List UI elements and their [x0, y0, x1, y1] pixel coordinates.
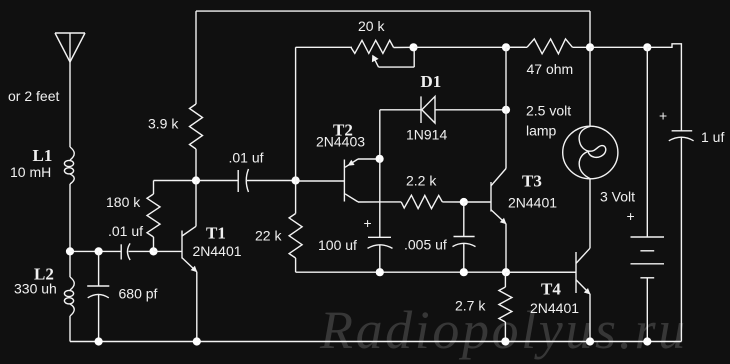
node bottom battery: [643, 337, 651, 345]
label or 2 feet: [8, 88, 59, 104]
wire T2 emitter to 100uf: [379, 159, 381, 238]
svg-text:47 ohm: 47 ohm: [527, 61, 574, 77]
svg-text:100 uf: 100 uf: [318, 237, 357, 253]
svg-text:3 Volt: 3 Volt: [600, 189, 635, 205]
node T2 emitter junction: [376, 155, 384, 163]
wire L2 to bottom rail: [69, 316, 71, 342]
node T3 base junction: [460, 198, 468, 206]
node T1 collector junction: [192, 176, 200, 184]
transistor T1 2N4401: [154, 181, 198, 342]
label 180 k: [106, 194, 141, 210]
transistor T2 2N4403: [296, 159, 380, 202]
battery 3 Volt: [631, 47, 665, 341]
label T3 2N4401: [508, 195, 557, 211]
wire 20k left leg: [296, 47, 352, 180]
svg-text:2N4401: 2N4401: [193, 243, 242, 259]
wire L1 to L2 node: [69, 184, 71, 277]
label .01 uf left: [108, 223, 143, 239]
label 2.7 k: [455, 298, 486, 314]
svg-text:+: +: [364, 215, 372, 231]
svg-text:3.9 k: 3.9 k: [148, 116, 179, 132]
inductor L1: [64, 147, 74, 184]
capacitor .01uf top: [196, 169, 296, 192]
label 22 k: [255, 228, 282, 244]
wire D1 to T3 collector: [505, 47, 507, 168]
capacitor C 680pf: [87, 251, 109, 341]
wire antenna to L1: [69, 62, 71, 147]
capacitor C 100uf: [368, 237, 393, 272]
wire bottom rail: [70, 341, 681, 343]
diode D1 1N914: [380, 96, 506, 123]
node bottom T4 emitter: [586, 337, 594, 345]
node bottom T1 emitter: [193, 337, 201, 345]
inductor L2: [64, 277, 74, 316]
capacitor C .005uf: [453, 202, 476, 272]
svg-text:T4: T4: [541, 280, 561, 299]
svg-text:2N4401: 2N4401: [530, 300, 579, 316]
label T2: [333, 121, 353, 140]
svg-text:2.5 volt: 2.5 volt: [526, 103, 571, 119]
label 1N914: [406, 127, 447, 143]
svg-text:2.2 k: 2.2 k: [406, 173, 437, 189]
svg-text:680 pf: 680 pf: [119, 286, 158, 302]
svg-text:L1: L1: [33, 146, 53, 165]
label 100uf plus: [364, 215, 372, 231]
wire lamp to T4 collector: [589, 178, 591, 248]
label D1: [421, 72, 442, 91]
node D1 rail junction: [502, 43, 510, 51]
svg-text:1N914: 1N914: [406, 127, 447, 143]
resistor R 47ohm: [506, 39, 590, 54]
node 680pf top: [95, 247, 103, 255]
watermark Radiopolyus.ru: [319, 300, 688, 360]
svg-text:2N4401: 2N4401: [508, 195, 557, 211]
label T2 2N4403: [316, 134, 365, 150]
node bottom 680pf: [95, 337, 103, 345]
potentiometer R 20k: [351, 40, 414, 67]
wire mid rail: [414, 46, 526, 48]
wire rail to right edge: [647, 44, 681, 131]
label 20 k: [358, 18, 385, 34]
label 1uf plus: [659, 108, 667, 124]
label .005 uf: [404, 237, 447, 253]
resistor R 180k: [147, 181, 196, 252]
svg-text:330 uh: 330 uh: [14, 281, 57, 297]
svg-text:.005 uf: .005 uf: [404, 237, 447, 253]
node T1 base junction: [149, 247, 157, 255]
label 330 uh: [14, 281, 57, 297]
svg-text:+: +: [627, 208, 635, 224]
svg-text:22 k: 22 k: [255, 228, 282, 244]
svg-text:D1: D1: [421, 72, 442, 91]
label 47 ohm: [527, 61, 574, 77]
wire lower rail: [296, 271, 576, 273]
svg-text:T3: T3: [522, 172, 542, 191]
node T2 base junction: [292, 176, 300, 184]
label T1: [206, 223, 226, 242]
svg-text:+: +: [659, 108, 667, 124]
resistor R 2.2k: [358, 195, 464, 208]
label lamp: [526, 123, 557, 139]
transistor T3 2N4401: [464, 169, 507, 273]
svg-text:.01 uf: .01 uf: [108, 223, 143, 239]
capacitor C 1uf: [669, 131, 694, 342]
node battery top junction: [643, 43, 651, 51]
node bottom 2.7k: [501, 337, 509, 345]
node D1 cathode junction: [502, 106, 510, 114]
svg-text:Radiopolyus.ru: Radiopolyus.ru: [319, 300, 688, 360]
wire rail lamp to battery: [590, 46, 647, 48]
label T4 2N4401: [530, 300, 579, 316]
label 2.5 volt: [526, 103, 571, 119]
resistor R 3.9k: [190, 11, 203, 180]
svg-text:.01 uf: .01 uf: [229, 150, 264, 166]
node 20k wiper junction: [409, 43, 417, 51]
svg-text:1 uf: 1 uf: [701, 129, 724, 145]
node lamp top junction: [586, 43, 594, 51]
svg-text:2.7 k: 2.7 k: [455, 298, 486, 314]
svg-text:2N4403: 2N4403: [316, 134, 365, 150]
label 10 mH: [10, 164, 51, 180]
node 100uf bottom: [376, 268, 384, 276]
capacitor .01uf left: [121, 243, 153, 260]
resistor R 2.7k: [499, 272, 512, 341]
label 100 uf: [318, 237, 357, 253]
resistor R 22k: [289, 181, 302, 273]
label T1 2N4401: [193, 243, 242, 259]
antenna: [55, 33, 85, 62]
lamp 2.5 volt: [563, 126, 618, 179]
label 680 pf: [119, 286, 158, 302]
wire rail to lamp: [589, 47, 591, 125]
svg-text:lamp: lamp: [526, 123, 557, 139]
wire junction row: [70, 250, 121, 252]
svg-text:T1: T1: [206, 223, 226, 242]
label battery plus: [627, 208, 635, 224]
wire D1 left leg: [379, 110, 381, 159]
node T3 emitter junction: [502, 268, 510, 276]
wire top rail: [196, 11, 590, 47]
node antenna junction: [66, 247, 74, 255]
svg-text:or 2 feet: or 2 feet: [8, 88, 59, 104]
label L2: [34, 265, 54, 284]
label 2.2 k: [406, 173, 437, 189]
transistor T4 2N4401: [506, 248, 591, 341]
svg-text:180 k: 180 k: [106, 194, 141, 210]
label T3: [522, 172, 542, 191]
svg-text:20 k: 20 k: [358, 18, 385, 34]
label 1 uf: [701, 129, 724, 145]
label 3 Volt: [600, 189, 635, 205]
label 3.9 k: [148, 116, 179, 132]
label L1: [33, 146, 53, 165]
label T4: [541, 280, 561, 299]
label .01 uf top: [229, 150, 264, 166]
node .005uf bottom: [460, 268, 468, 276]
svg-text:10 mH: 10 mH: [10, 164, 51, 180]
